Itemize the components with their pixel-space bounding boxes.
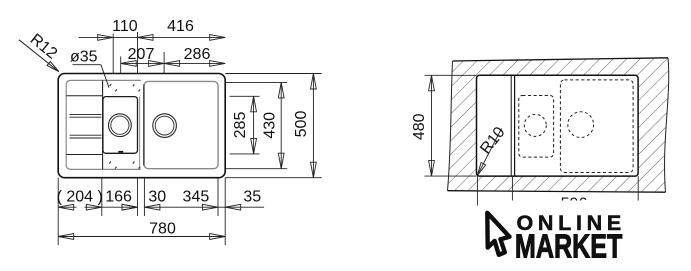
large bowl left edge (143, 85, 145, 166)
band top edge (453, 58, 669, 61)
svg-text:166: 166 (105, 189, 132, 206)
logo white box (482, 201, 651, 271)
bottom extension lines (58, 178, 225, 245)
band right break edge (665, 58, 669, 192)
dimension 35 (218, 204, 264, 210)
dimension 207 (121, 52, 226, 74)
drainboard bottom line (66, 154, 102, 156)
dimension 30 (122, 204, 218, 210)
large bowl (144, 81, 218, 168)
dimension 110 (79, 32, 226, 74)
band bottom edge (448, 191, 666, 193)
dimension 596 (477, 176, 638, 207)
leader dia 35 (73, 65, 110, 88)
small bowl drain (109, 114, 132, 137)
svg-text:207: 207 (128, 46, 155, 63)
overflow tick (118, 151, 123, 153)
large bowl drain (153, 114, 177, 138)
drainboard top line (66, 95, 102, 97)
small bowl (103, 97, 138, 154)
hidden small drain (524, 114, 546, 136)
drainboard divider (102, 80, 104, 169)
dimension 345 (203, 204, 219, 210)
sink edge lines in cutout (510, 75, 512, 176)
svg-text:286: 286 (184, 46, 211, 63)
svg-text:480: 480 (411, 113, 428, 140)
dimension 166 (122, 204, 138, 210)
svg-text:35: 35 (243, 189, 261, 206)
logo cursor (487, 213, 509, 255)
svg-text:ø35: ø35 (70, 48, 98, 65)
svg-text:780: 780 (149, 221, 176, 238)
faucet hole marks top (109, 84, 140, 92)
svg-text:MARKET: MARKET (515, 228, 622, 265)
svg-text:345: 345 (183, 189, 210, 206)
svg-text:430: 430 (261, 112, 278, 139)
dimension 480 (425, 75, 477, 176)
sink outer outline (58, 74, 225, 178)
hidden large bowl (560, 80, 633, 173)
inner rim (66, 80, 141, 169)
cutout (477, 75, 639, 176)
hidden small bowl (519, 96, 554, 158)
dimension 285 (251, 96, 257, 154)
dimension 780 (58, 234, 225, 240)
leader R10 (477, 129, 501, 176)
hidden large drain (568, 112, 594, 138)
svg-text:416: 416 (167, 18, 194, 35)
dimension 204 (58, 204, 137, 210)
svg-text:500: 500 (293, 111, 310, 138)
leader R12 (19, 40, 59, 72)
right side extension lines (225, 74, 322, 178)
faucet hole marks bottom (109, 161, 140, 169)
svg-text:110: 110 (112, 18, 138, 35)
band left break edge (448, 61, 453, 191)
worktop hatched band (448, 58, 669, 192)
drainboard ridges (70, 114, 102, 138)
bowl seam line (139, 97, 141, 170)
dimension 430 (278, 82, 284, 168)
svg-text:30: 30 (148, 189, 166, 206)
svg-text:285: 285 (232, 112, 249, 139)
dimension 500 (311, 74, 317, 178)
svg-text:( 204 ): ( 204 ) (57, 189, 103, 206)
